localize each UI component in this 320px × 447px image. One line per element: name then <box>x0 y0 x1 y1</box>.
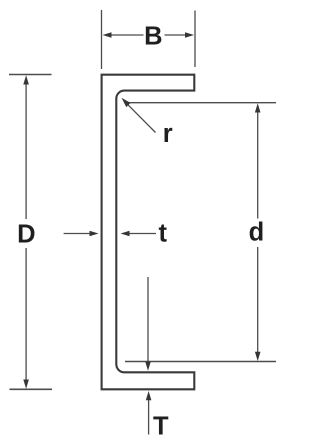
dimension B left arrow <box>110 34 144 36</box>
dimension T upper arrow (points down to flange top) <box>147 277 149 363</box>
dimension T lower arrow (points up to flange bottom) <box>148 400 150 435</box>
dimension d line lower <box>257 247 259 356</box>
svg-text:D: D <box>17 220 35 248</box>
dimension D line upper <box>25 80 27 219</box>
dimension d top arrowhead <box>255 103 261 112</box>
radius r leader arrowhead <box>122 98 131 107</box>
dimension d bottom extension line <box>125 361 276 363</box>
svg-text:T: T <box>153 412 169 440</box>
dimension d line upper <box>257 108 259 219</box>
dimension D line lower <box>25 248 27 384</box>
channel section outline <box>102 75 195 390</box>
svg-text:t: t <box>159 219 168 247</box>
dimension d top extension line <box>127 102 276 104</box>
svg-text:d: d <box>249 219 265 247</box>
dimension D bottom arrowhead <box>23 380 29 389</box>
dimension D top arrowhead <box>23 75 29 84</box>
svg-text:r: r <box>163 120 173 148</box>
dimension t right arrow <box>129 233 157 235</box>
svg-text:B: B <box>144 23 162 51</box>
dimension B extension line right <box>194 11 196 68</box>
dimension D bottom tick <box>10 388 53 390</box>
dimension B right arrow <box>165 34 187 36</box>
dimension D top tick <box>9 74 52 76</box>
radius r leader line <box>128 104 156 132</box>
dimension d bottom arrowhead <box>255 352 261 361</box>
dimension t left arrow <box>64 233 91 235</box>
dimension B extension line left <box>101 10 103 69</box>
